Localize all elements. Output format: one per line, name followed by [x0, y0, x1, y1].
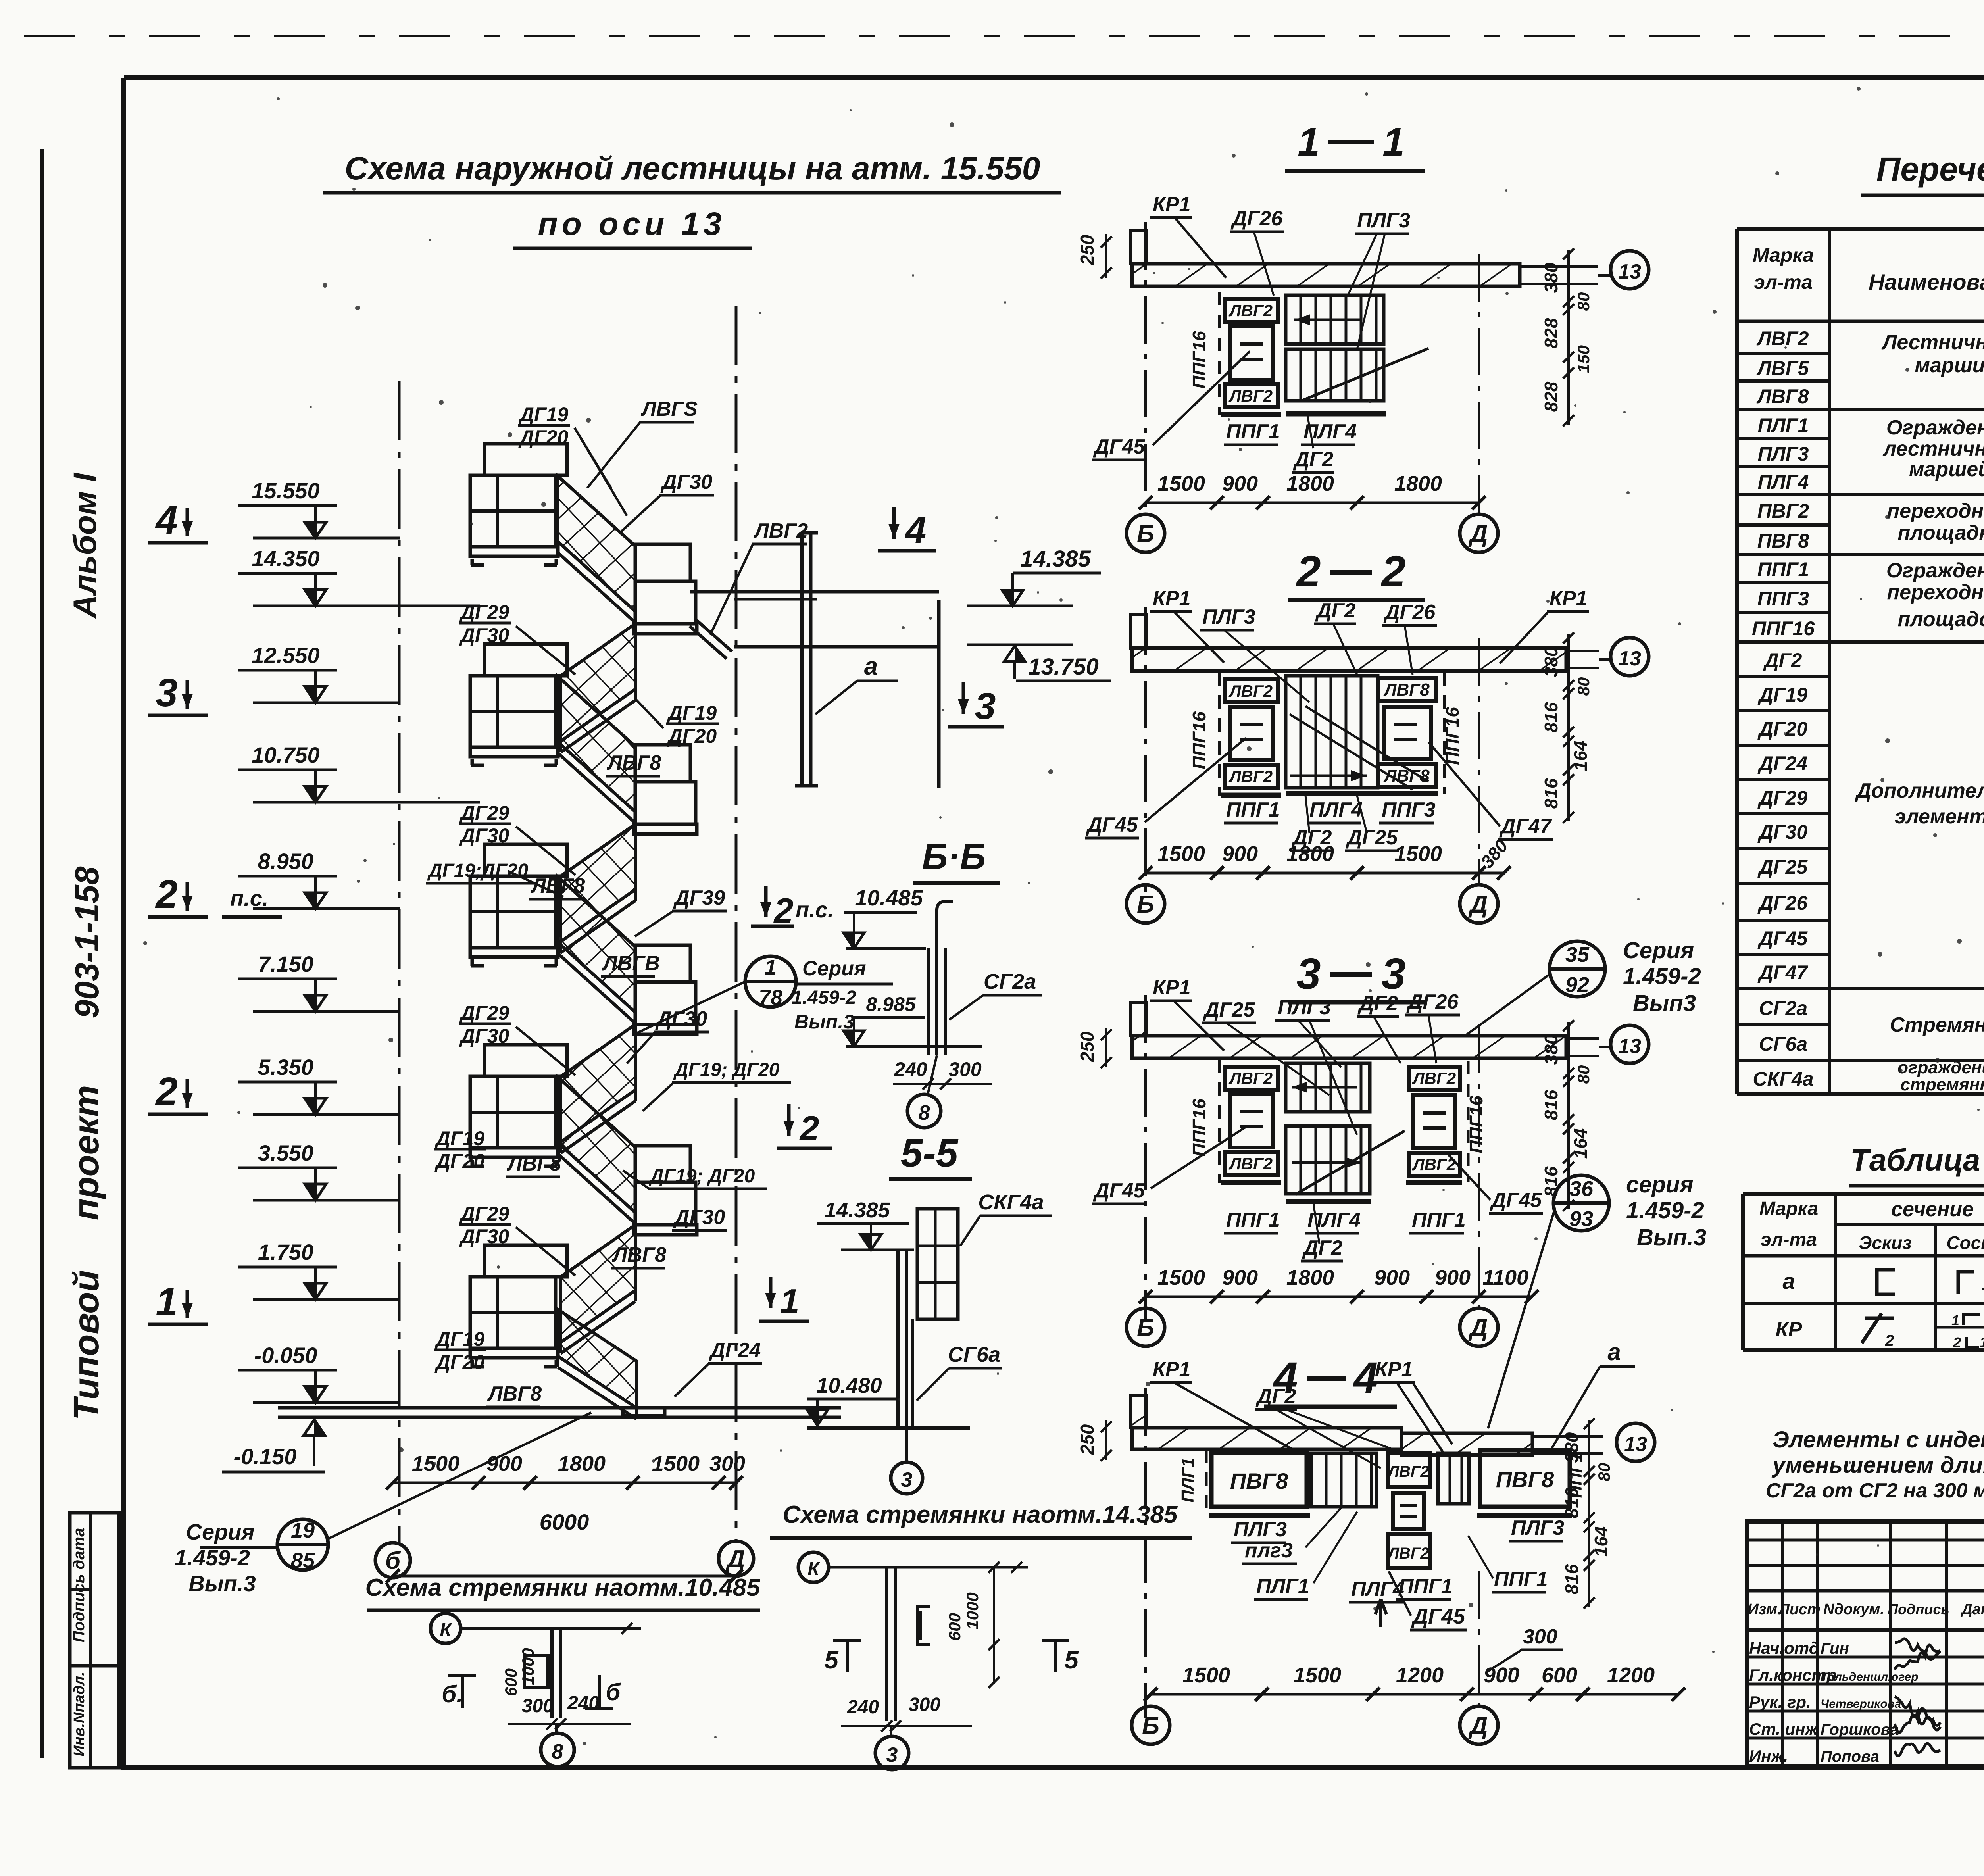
svg-text:К: К: [807, 1559, 821, 1580]
svg-text:ДГ45: ДГ45: [1093, 1179, 1145, 1202]
svg-text:ПЛГ4: ПЛГ4: [1351, 1578, 1404, 1601]
svg-text:10.750: 10.750: [252, 742, 319, 767]
section 4-4 series balloon 36/93: [1553, 1175, 1609, 1231]
svg-text:ДГ30: ДГ30: [1757, 821, 1808, 843]
svg-text:ППГ16: ППГ16: [1189, 711, 1209, 769]
svg-text:13: 13: [1624, 1433, 1647, 1456]
svg-text:ДГ30: ДГ30: [660, 471, 712, 494]
svg-text:ППГ1: ППГ1: [1757, 558, 1809, 580]
svg-text:3: 3: [1381, 950, 1405, 998]
svg-text:ДГ29: ДГ29: [1757, 787, 1808, 809]
svg-text:Наименование: Наименование: [1869, 269, 1984, 294]
svg-text:35: 35: [1565, 943, 1590, 967]
svg-text:19: 19: [291, 1518, 315, 1542]
svg-text:240: 240: [847, 1697, 879, 1718]
svg-text:Б·Б: Б·Б: [922, 836, 986, 877]
svg-text:250: 250: [1077, 1031, 1098, 1062]
svg-text:ЛВГ8: ЛВГ8: [530, 875, 585, 898]
section 3-3 axis circle 13: [1611, 1025, 1649, 1063]
svg-text:КР1: КР1: [1153, 976, 1191, 999]
title block verticals left part: [1781, 1521, 1784, 1765]
axis line Б (stair): [398, 381, 401, 1543]
svg-text:ДГ19; ДГ20: ДГ19; ДГ20: [673, 1059, 780, 1080]
svg-text:900: 900: [1222, 472, 1258, 496]
ladder 10.485 bars: [550, 1627, 554, 1718]
svg-text:ПЛГ4: ПЛГ4: [1758, 471, 1809, 493]
stair right platform 2: [635, 745, 690, 782]
section 3-3 axis circle Б: [1127, 1308, 1165, 1346]
svg-text:КР1: КР1: [1550, 587, 1588, 610]
svg-text:1800: 1800: [1286, 842, 1334, 866]
svg-text:Д: Д: [1468, 520, 1488, 548]
svg-text:1500: 1500: [652, 1452, 700, 1476]
svg-text:900: 900: [1374, 1266, 1410, 1290]
section 2-2 right rotated dims: [1567, 634, 1570, 821]
svg-text:Таблица элементов канструкций: Таблица элементов канструкций: [1850, 1142, 1984, 1177]
svg-text:900: 900: [1435, 1266, 1471, 1290]
svg-text:ДГ25: ДГ25: [1203, 998, 1255, 1021]
svg-text:ЛВГ2: ЛВГ2: [1228, 386, 1273, 405]
stair left platform 5: [484, 1245, 567, 1277]
section 3-3 axis circle Д: [1460, 1308, 1498, 1346]
svg-text:Nдокум.: Nдокум.: [1823, 1601, 1884, 1618]
svg-text:ДГ26: ДГ26: [1757, 892, 1808, 914]
svg-text:600: 600: [502, 1668, 520, 1696]
svg-text:828: 828: [1541, 381, 1561, 412]
svg-text:переходные: переходные: [1887, 500, 1984, 523]
svg-text:816: 816: [1541, 702, 1561, 732]
svg-text:2: 2: [773, 891, 794, 930]
svg-text:1500: 1500: [1294, 1663, 1341, 1687]
section 3-3 wall column: [1130, 1002, 1146, 1036]
svg-text:1.750: 1.750: [258, 1240, 313, 1265]
stair left platform 2: [484, 644, 567, 676]
svg-text:ЛВГ2: ЛВГ2: [1228, 767, 1273, 786]
section 2-2 wall column: [1130, 614, 1146, 648]
svg-text:ДГ29: ДГ29: [459, 601, 509, 623]
svg-text:Четверикова: Четверикова: [1821, 1697, 1901, 1711]
svg-text:2: 2: [1380, 547, 1405, 596]
detail 5-5 stringer bars: [896, 1250, 900, 1428]
section 3-3 axis Д line: [1478, 1026, 1480, 1308]
small table frame: [1743, 1192, 1984, 1196]
stair flight down-left 2: [561, 824, 635, 942]
svg-text:ДГ30: ДГ30: [673, 1206, 725, 1229]
svg-text:ДГ19: ДГ19: [667, 702, 717, 724]
svg-text:-0.050: -0.050: [254, 1343, 317, 1368]
svg-text:ЛВГ8: ЛВГ8: [606, 752, 661, 775]
svg-text:Инв.Nпадл.: Инв.Nпадл.: [71, 1672, 88, 1756]
stair right platform 3: [635, 945, 690, 982]
svg-text:Д: Д: [1468, 1712, 1488, 1740]
svg-text:828: 828: [1541, 318, 1561, 348]
svg-text:1200: 1200: [1396, 1663, 1444, 1687]
svg-text:85: 85: [291, 1549, 315, 1572]
svg-text:ДГ45: ДГ45: [1086, 813, 1138, 836]
svg-text:ДГ19;ДГ20: ДГ19;ДГ20: [427, 860, 528, 881]
svg-text:Д: Д: [725, 1545, 745, 1573]
section 4-4 axis Д line: [1478, 1571, 1480, 1705]
svg-text:п.с.: п.с.: [796, 897, 834, 922]
section 3-3 axis Б line: [1144, 995, 1147, 1322]
svg-text:СГ6а: СГ6а: [948, 1343, 1000, 1367]
svg-text:300: 300: [909, 1694, 940, 1715]
svg-text:СГ6а: СГ6а: [1759, 1033, 1807, 1055]
svg-text:ДГ45: ДГ45: [1490, 1189, 1542, 1212]
svg-text:Горшкова: Горшкова: [1821, 1721, 1899, 1738]
svg-text:3: 3: [1296, 950, 1321, 998]
svg-text:Б: Б: [1137, 520, 1154, 548]
small table sub split row КР: [1935, 1326, 1984, 1329]
svg-text:ЛВГ2: ЛВГ2: [753, 519, 808, 542]
svg-text:3: 3: [975, 685, 996, 727]
svg-text:36: 36: [1569, 1177, 1594, 1201]
stair 6000 dimension: [393, 1575, 736, 1578]
stair flight down-left 1: [561, 624, 635, 741]
svg-text:ДГ30: ДГ30: [459, 825, 509, 847]
svg-text:15.550: 15.550: [252, 478, 319, 503]
svg-text:Нач.отд: Нач.отд: [1749, 1639, 1819, 1657]
svg-text:КР1: КР1: [1153, 193, 1191, 216]
svg-text:ЛВГ2: ЛВГ2: [1228, 301, 1273, 320]
svg-text:8: 8: [552, 1740, 563, 1763]
svg-text:1: 1: [156, 1280, 178, 1324]
svg-text:2: 2: [155, 872, 178, 917]
svg-text:ДГ26: ДГ26: [1406, 990, 1459, 1013]
ladder 14.385 К circle: [798, 1552, 829, 1582]
svg-text:900: 900: [1222, 1266, 1258, 1290]
section 1-1 flight stripes lower: [1286, 349, 1384, 401]
svg-text:проект: проект: [67, 1085, 106, 1221]
section 3-3 middle stripes lower: [1286, 1126, 1370, 1194]
ladder 10.485 К circle: [431, 1613, 461, 1643]
section 2-2 dimension chain: [1146, 872, 1504, 875]
svg-text:ПВГ8: ПВГ8: [1496, 1467, 1554, 1492]
svg-text:ППГ1: ППГ1: [1226, 420, 1280, 443]
svg-text:ДГ29: ДГ29: [459, 802, 509, 824]
svg-text:площадок: площадок: [1898, 608, 1984, 631]
stair bottom flight to ground: [558, 1309, 636, 1408]
svg-text:2: 2: [1296, 547, 1321, 596]
svg-text:1000: 1000: [519, 1648, 537, 1685]
svg-text:СКГ4а: СКГ4а: [1753, 1068, 1813, 1090]
svg-text:ДГ19; ДГ20: ДГ19; ДГ20: [648, 1166, 755, 1187]
svg-text:816: 816: [1561, 1488, 1582, 1518]
svg-text:5: 5: [1064, 1645, 1079, 1674]
svg-text:ДГ45: ДГ45: [1411, 1605, 1465, 1628]
ladder 14.385 bracket: [917, 1606, 930, 1645]
column a (channel): [800, 533, 804, 786]
stair right platform 4: [635, 1146, 690, 1182]
svg-text:ЛВГ8: ЛВГ8: [1383, 766, 1430, 786]
svg-text:Д: Д: [1468, 1314, 1488, 1342]
section 1-1 axis circle 13: [1611, 251, 1649, 289]
section 3-3 right block ЛВГ2: [1409, 1067, 1460, 1090]
series balloon 19/85: [277, 1519, 328, 1570]
svg-text:СКГ4а: СКГ4а: [978, 1190, 1044, 1214]
svg-text:Вып.3: Вып.3: [188, 1571, 256, 1596]
svg-text:903-1-158: 903-1-158: [68, 866, 106, 1018]
svg-text:б.: б.: [442, 1681, 463, 1707]
svg-text:Гольденшлюгер: Гольденшлюгер: [1821, 1670, 1919, 1684]
svg-text:ППГ16: ППГ16: [1189, 331, 1209, 389]
svg-text:ПЛГ4: ПЛГ4: [1309, 798, 1363, 821]
section 1-1 wall column: [1130, 230, 1146, 264]
svg-text:КР1: КР1: [1153, 587, 1191, 610]
section 3-3 series balloon 35/92: [1550, 941, 1605, 997]
svg-text:ДГ19: ДГ19: [518, 404, 569, 426]
section cut marker 1: [769, 1277, 773, 1308]
svg-text:уменьшением длины:: уменьшением длины:: [1771, 1452, 1984, 1478]
section 1-1 axis circle Б: [1127, 514, 1165, 552]
svg-text:Схема стремянки наотм.14.385: Схема стремянки наотм.14.385: [783, 1501, 1178, 1528]
svg-text:Б: Б: [1137, 891, 1154, 918]
drawing frame: [124, 75, 1984, 80]
section 4-4 axis circle Б: [1132, 1706, 1170, 1744]
svg-text:ППГ1: ППГ1: [1399, 1575, 1453, 1598]
svg-text:Изм.: Изм.: [1748, 1601, 1782, 1618]
svg-text:ДГ24: ДГ24: [709, 1339, 761, 1362]
svg-text:а: а: [1607, 1339, 1621, 1365]
svg-text:ДГ29: ДГ29: [459, 1002, 509, 1024]
svg-text:ЛВГ2: ЛВГ2: [1228, 1154, 1273, 1173]
svg-text:ДГ26: ДГ26: [1230, 207, 1283, 230]
svg-text:ДГ20: ДГ20: [1757, 718, 1808, 740]
svg-text:4: 4: [905, 509, 927, 551]
svg-text:816: 816: [1541, 1166, 1561, 1197]
svg-text:1800: 1800: [1394, 472, 1442, 496]
svg-text:240: 240: [567, 1693, 599, 1714]
svg-text:ДГ25: ДГ25: [1757, 856, 1808, 878]
svg-text:10.480: 10.480: [816, 1374, 882, 1397]
ladder 14.385 bars: [885, 1566, 888, 1721]
svg-text:элементы: элементы: [1895, 805, 1984, 828]
stair flight down-left 4: [561, 1225, 635, 1342]
svg-text:п.с.: п.с.: [230, 886, 268, 911]
svg-text:900: 900: [1484, 1663, 1519, 1687]
svg-text:ПЛГ1: ПЛГ1: [1758, 414, 1809, 436]
svg-text:8: 8: [919, 1101, 930, 1124]
svg-text:ЛВГ5: ЛВГ5: [1757, 357, 1809, 379]
foot plate: [623, 1408, 665, 1416]
section 2-2 wall band: [1132, 648, 1566, 671]
svg-text:Серия: Серия: [186, 1519, 255, 1544]
svg-text:2: 2: [799, 1109, 819, 1148]
svg-text:Марка: Марка: [1759, 1198, 1818, 1219]
svg-text:14.385: 14.385: [1020, 546, 1091, 572]
svg-text:ДГ20: ДГ20: [667, 725, 717, 747]
svg-text:Состав: Состав: [1946, 1232, 1984, 1253]
svg-text:300: 300: [709, 1452, 745, 1476]
section 4-4 wall band part 1: [1132, 1428, 1401, 1449]
svg-text:80: 80: [1574, 677, 1593, 696]
section 1-1 axis Б line: [1144, 222, 1147, 514]
svg-text:ДГ2: ДГ2: [1302, 1236, 1342, 1259]
sidebar stamp box: Подпись дата: [70, 1513, 119, 1666]
svg-text:1: 1: [765, 955, 777, 979]
stair flight down-left 3: [561, 1024, 635, 1142]
stair bottom dimension chain: [393, 1482, 736, 1484]
section 4-4 stripes left: [1311, 1453, 1376, 1507]
elevation -0.150: [304, 1420, 325, 1436]
svg-text:а: а: [1782, 1269, 1795, 1294]
svg-text:ЛВГ8: ЛВГ8: [1383, 680, 1430, 700]
ladder 10.485 circle 8: [555, 1724, 558, 1735]
svg-text:Схема стремянки наотм.10.485: Схема стремянки наотм.10.485: [365, 1574, 761, 1601]
svg-text:ППГ1: ППГ1: [1494, 1568, 1548, 1591]
section 1-1 wall band: [1132, 264, 1520, 286]
svg-text:300: 300: [522, 1695, 554, 1716]
svg-text:ДГ2: ДГ2: [1763, 649, 1802, 671]
svg-text:ЛВГ2: ЛВГ2: [1228, 682, 1273, 700]
section 1-1 flight stripes upper: [1286, 295, 1384, 344]
section 2-2 axis Д line: [1478, 638, 1480, 883]
section 4-4 central ЛВГ2 stack: [1388, 1453, 1430, 1487]
section 1-1 axis circle Д: [1460, 514, 1498, 552]
wall column right: [937, 600, 941, 788]
ground double line: [278, 1406, 841, 1410]
svg-text:80: 80: [1574, 292, 1593, 311]
svg-text:1100: 1100: [1482, 1266, 1528, 1290]
svg-text:Эскиз: Эскиз: [1859, 1232, 1912, 1253]
svg-text:ДГ19: ДГ19: [434, 1328, 485, 1350]
svg-text:600: 600: [1542, 1663, 1577, 1687]
svg-text:816: 816: [1561, 1564, 1582, 1594]
section 2-2 axis Б line: [1144, 607, 1147, 898]
svg-text:ДГ30: ДГ30: [459, 624, 509, 646]
svg-text:ПЛГ3: ПЛГ3: [1202, 605, 1255, 629]
svg-text:ППГ16: ППГ16: [1752, 617, 1815, 640]
section 2-2 base line: [1286, 791, 1377, 796]
svg-text:1.459-2: 1.459-2: [1626, 1197, 1704, 1223]
section cut marker 2 п.с.: [764, 886, 768, 917]
svg-text:3: 3: [901, 1469, 913, 1492]
svg-text:Ограждение: Ограждение: [1886, 416, 1984, 439]
svg-text:300: 300: [1523, 1625, 1557, 1648]
svg-text:СГ2а от СГ2 на 300 мм; СГ6а;: СГ2а от СГ2 на 300 мм; СГ6а; СКГча от СГ…: [1766, 1479, 1984, 1502]
svg-text:1500: 1500: [1157, 1266, 1205, 1290]
section 3-3 wall band: [1132, 1036, 1566, 1058]
svg-text:14.350: 14.350: [252, 546, 319, 571]
svg-text:1: 1: [1951, 1312, 1959, 1328]
svg-text:Попова: Попова: [1821, 1748, 1879, 1765]
svg-text:марши: марши: [1915, 354, 1984, 377]
stair left platform 1: [484, 444, 567, 475]
svg-text:площадки: площадки: [1898, 521, 1984, 544]
svg-text:ППГ16: ППГ16: [1189, 1099, 1209, 1157]
svg-text:1500: 1500: [1394, 842, 1442, 866]
svg-text:1: 1: [1298, 120, 1320, 164]
svg-text:Дополнительные: Дополнительные: [1855, 779, 1984, 802]
svg-text:380: 380: [1541, 1034, 1561, 1065]
svg-text:1200: 1200: [1607, 1663, 1655, 1687]
svg-text:4: 4: [155, 498, 178, 542]
svg-text:80: 80: [1574, 1065, 1593, 1084]
svg-text:Стремянки: Стремянки: [1890, 1013, 1984, 1036]
axis circle Д (stair): [719, 1541, 754, 1576]
svg-text:816: 816: [1541, 1090, 1561, 1120]
svg-text:Гин: Гин: [1821, 1640, 1849, 1657]
svg-text:10.485: 10.485: [855, 885, 923, 910]
svg-text:ДГ2: ДГ2: [1357, 992, 1398, 1015]
section 4-4 wall column: [1130, 1395, 1146, 1428]
svg-text:18: 18: [1982, 1274, 1984, 1294]
svg-text:5.350: 5.350: [258, 1055, 313, 1080]
axis line Д (stair): [735, 306, 738, 1542]
svg-text:Б: Б: [1142, 1712, 1159, 1740]
svg-text:ПЛГ1: ПЛГ1: [1256, 1575, 1309, 1598]
svg-text:К: К: [440, 1620, 453, 1641]
svg-text:125х10: 125х10: [1980, 1334, 1984, 1351]
svg-text:78: 78: [759, 986, 782, 1009]
detail 5-5 ground line: [807, 1426, 970, 1430]
title block left thin rows: [1747, 1539, 1984, 1542]
svg-text:1500: 1500: [1157, 472, 1205, 496]
svg-text:380: 380: [1541, 262, 1561, 293]
detail 5-5 circle 3: [905, 1428, 908, 1462]
outer sheet edge left: [40, 149, 44, 1758]
svg-text:Серия: Серия: [802, 957, 866, 980]
svg-text:Лестничные: Лестничные: [1881, 331, 1984, 354]
balloon 1/78 with series note: [745, 956, 796, 1007]
svg-text:ПЛГ3: ПЛГ3: [1234, 1518, 1287, 1541]
svg-text:СГ2а: СГ2а: [1759, 997, 1807, 1019]
title block outer: [1747, 1521, 1984, 1766]
svg-text:ППГ1: ППГ1: [1226, 798, 1280, 821]
svg-text:ППГ1: ППГ1: [1412, 1209, 1466, 1232]
svg-text:ППГ1: ППГ1: [1226, 1209, 1280, 1232]
section 3-3 middle stripes upper: [1286, 1063, 1370, 1112]
section 1-1 left block: [1218, 292, 1221, 415]
svg-text:ДГ20: ДГ20: [434, 1150, 485, 1172]
svg-text:1800: 1800: [1286, 472, 1334, 496]
svg-text:250: 250: [1077, 234, 1098, 265]
svg-text:ДГ29: ДГ29: [459, 1203, 509, 1225]
svg-text:Д: Д: [1468, 891, 1488, 918]
stair left platform 4: [484, 1045, 567, 1076]
svg-text:93: 93: [1569, 1207, 1593, 1231]
svg-text:б: б: [606, 1679, 621, 1705]
svg-text:380: 380: [1541, 646, 1561, 677]
svg-text:ППГ3: ППГ3: [1382, 798, 1436, 821]
svg-text:ДГ20: ДГ20: [434, 1351, 485, 1373]
svg-text:ЛВГ2: ЛВГ2: [1757, 327, 1809, 350]
svg-text:1.459-2: 1.459-2: [1623, 963, 1701, 989]
svg-text:а: а: [864, 653, 878, 680]
detail 5-5 СКГ4а cage box: [917, 1209, 958, 1319]
stair flight down-right 1: [558, 476, 635, 611]
stair flight down-right 4: [558, 1077, 635, 1213]
svg-text:Вып.3: Вып.3: [794, 1011, 854, 1033]
svg-text:ДГ30: ДГ30: [459, 1225, 509, 1247]
svg-text:сечение: сечение: [1891, 1198, 1974, 1221]
svg-text:600: 600: [945, 1613, 964, 1641]
level 13.750 mark: [967, 644, 1073, 646]
svg-text:ДГ47: ДГ47: [1757, 961, 1809, 984]
svg-text:ЛВГ2: ЛВГ2: [1412, 1155, 1456, 1174]
svg-text:-0.150: -0.150: [234, 1444, 297, 1469]
stair flight down-right 2: [558, 677, 635, 812]
svg-text:Схема наружной лестницы на атм: Схема наружной лестницы на атм. 15.550: [345, 150, 1040, 186]
svg-text:13: 13: [1618, 1035, 1641, 1058]
svg-text:2: 2: [1953, 1334, 1961, 1351]
ladder 14.385 circle 3: [890, 1726, 892, 1737]
svg-text:Вып3: Вып3: [1633, 990, 1696, 1016]
section 2-2 left block: [1218, 672, 1221, 796]
svg-text:ДГ39: ДГ39: [673, 886, 725, 909]
svg-text:5: 5: [824, 1645, 839, 1674]
svg-text:ЛВГ2: ЛВГ2: [1387, 1463, 1429, 1480]
